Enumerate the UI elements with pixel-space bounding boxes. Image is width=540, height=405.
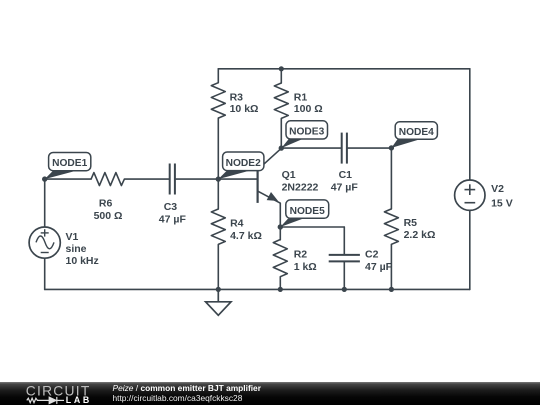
wire R1 bottom lead: [280, 118, 282, 148]
node junction dot C2 bottom: [342, 287, 347, 292]
wire right vertical (V2 top): [469, 69, 471, 180]
svg-text:2.2 kΩ: 2.2 kΩ: [404, 229, 436, 241]
wire NODE4 to R5: [390, 148, 392, 209]
svg-text:R1: R1: [294, 91, 308, 103]
resistor R6: [91, 173, 124, 186]
capacitor C3: [170, 164, 175, 195]
svg-text:500 Ω: 500 Ω: [94, 210, 123, 222]
wire R6 to C3: [124, 178, 168, 180]
node junction dot R5 bottom: [389, 287, 394, 292]
wire top rail: [218, 68, 469, 70]
wire C2 bottom lead: [343, 262, 345, 289]
resistor R5: [384, 209, 398, 244]
svg-text:NODE5: NODE5: [290, 206, 325, 217]
svg-text:sine: sine: [66, 243, 87, 255]
wire C3 to base of Q1: [176, 178, 258, 180]
wire NODE3 to C1: [281, 147, 340, 149]
svg-text:R5: R5: [404, 217, 418, 229]
svg-text:C1: C1: [339, 169, 353, 181]
wire R2 bottom lead: [279, 277, 281, 290]
wire R2 top lead: [279, 227, 281, 240]
svg-text:C2: C2: [365, 248, 379, 260]
resistor R2: [273, 240, 287, 277]
svg-text:Peize / common emitter BJT amp: Peize / common emitter BJT amplifier: [113, 383, 262, 393]
footer bar: [0, 382, 540, 405]
svg-text:R3: R3: [230, 91, 244, 103]
wire NODE1 to R6: [45, 178, 91, 180]
wire R1 top lead: [280, 69, 282, 83]
resistor R4: [211, 209, 225, 244]
node NODE2: [216, 152, 264, 182]
wire C2 top lead: [343, 227, 345, 254]
svg-text:Q1: Q1: [282, 169, 296, 181]
capacitor C1: [342, 133, 347, 164]
svg-text:R6: R6: [99, 198, 113, 210]
wire R4 bottom lead: [217, 244, 219, 289]
svg-text:V1: V1: [66, 231, 79, 243]
node NODE4: [389, 122, 438, 151]
svg-text:10 kHz: 10 kHz: [66, 255, 99, 267]
wire C1 to NODE4: [348, 147, 392, 149]
svg-text:LAB: LAB: [66, 395, 92, 405]
svg-text:47 µF: 47 µF: [331, 182, 359, 194]
resistor R1: [274, 83, 288, 118]
node junction dot ground: [216, 287, 221, 292]
wire bottom rail: [45, 288, 470, 290]
svg-text:10 kΩ: 10 kΩ: [230, 103, 259, 115]
svg-text:1 kΩ: 1 kΩ: [294, 261, 317, 273]
svg-text:NODE1: NODE1: [52, 158, 87, 169]
node NODE5: [278, 200, 329, 230]
wire Q1 emitter vertical: [279, 203, 281, 227]
wire left vertical (V1 bottom lead): [44, 258, 46, 289]
voltage source V2: [455, 180, 485, 210]
ground: [206, 289, 231, 315]
wire R5 bottom lead: [390, 244, 392, 289]
svg-text:47 µF: 47 µF: [365, 261, 393, 273]
wire R3 bottom lead: [217, 118, 219, 179]
wire R4 top lead: [217, 179, 219, 209]
node junction dot R2 bottom: [278, 287, 283, 292]
node NODE1: [42, 153, 91, 182]
svg-text:NODE2: NODE2: [226, 158, 261, 169]
svg-text:NODE4: NODE4: [399, 127, 434, 138]
svg-text:100 Ω: 100 Ω: [294, 103, 323, 115]
transistor Q1: [258, 148, 282, 203]
resistor R3: [211, 83, 225, 118]
svg-text:V2: V2: [491, 183, 504, 195]
svg-text:R2: R2: [294, 248, 308, 260]
svg-text:2N2222: 2N2222: [282, 182, 319, 194]
voltage source V1: [29, 227, 60, 258]
svg-text:47 µF: 47 µF: [159, 213, 187, 225]
capacitor C2: [329, 255, 360, 262]
wire right vertical (V2 bottom): [469, 210, 471, 289]
svg-text:C3: C3: [164, 201, 178, 213]
node junction dot top rail / R1: [279, 66, 284, 71]
svg-text:15 V: 15 V: [491, 198, 513, 210]
wire NODE5 horizontal to C2: [280, 226, 344, 228]
wire left vertical (V1 top lead): [44, 179, 46, 227]
svg-text:http://circuitlab.com/ca3eqfck: http://circuitlab.com/ca3eqfckksc28: [113, 393, 243, 403]
svg-text:NODE3: NODE3: [289, 127, 324, 138]
footer logo resistor-diode glyph: [27, 397, 64, 404]
svg-text:R4: R4: [230, 217, 244, 229]
svg-text:4.7 kΩ: 4.7 kΩ: [230, 230, 262, 242]
node NODE3: [279, 121, 328, 151]
wire R3 top lead: [217, 69, 219, 83]
